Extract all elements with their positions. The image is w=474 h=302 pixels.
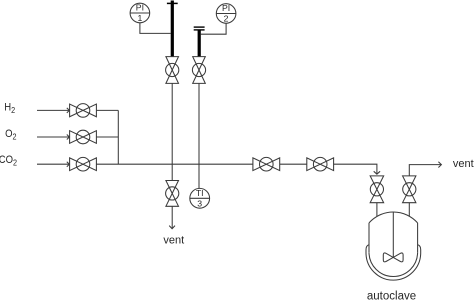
valve autoclave vent	[403, 176, 416, 203]
svg-text:PI: PI	[222, 3, 230, 13]
wire O2 to manifold	[96, 136, 118, 138]
valve autoclave feed	[370, 176, 384, 203]
wire H2 inlet	[37, 109, 69, 111]
valve CO2 line	[70, 157, 97, 171]
autoclave jacket	[366, 245, 421, 280]
svg-text:autoclave: autoclave	[367, 291, 416, 302]
svg-text:3: 3	[197, 198, 202, 208]
wire pipe 2 down to TI	[198, 83, 200, 188]
wire H2 to manifold	[96, 109, 118, 111]
svg-text:vent: vent	[163, 234, 184, 246]
wire PI 1 to capillary	[140, 23, 171, 34]
wire main line segment 1	[96, 163, 253, 165]
wire CO2 inlet	[37, 163, 69, 165]
svg-text:vent: vent	[453, 158, 474, 170]
flow arrow vent right	[438, 162, 441, 168]
stirrer shaft	[392, 212, 394, 257]
wire main line segment 2	[280, 163, 307, 165]
valve vent bottom	[166, 181, 179, 207]
valve O2 line	[70, 130, 97, 144]
valve main line 2	[307, 157, 334, 171]
capillary pipe 2 (thick)	[194, 27, 205, 56]
wire main line segment 3 to autoclave drop	[334, 164, 377, 173]
svg-text:2: 2	[224, 14, 229, 24]
flow arrow vent bottom	[169, 226, 175, 229]
instrument PI 1	[130, 3, 150, 24]
svg-text:O2: O2	[5, 128, 16, 142]
instrument TI 3	[190, 188, 210, 209]
flow arrow H2 line	[67, 108, 70, 113]
svg-text:TI: TI	[196, 188, 204, 198]
flow arrow CO2 line	[67, 162, 70, 167]
valve main line 1	[253, 157, 280, 171]
wire vent riser to arrow	[409, 165, 441, 176]
wire autoclave vent riser	[408, 203, 410, 217]
wire feed valve to autoclave nozzle	[376, 203, 378, 217]
wire O2 inlet	[37, 136, 69, 138]
wire manifold vertical	[117, 110, 119, 164]
valve pipe 1 top	[166, 57, 179, 84]
wire PI 2 to capillary	[201, 23, 226, 34]
valve H2 line	[70, 104, 97, 118]
svg-text:CO2: CO2	[0, 154, 17, 168]
instrument PI 2	[216, 3, 236, 24]
autoclave vessel body	[369, 212, 418, 277]
capillary pipe 1 (thick)	[167, 1, 178, 57]
svg-text:PI: PI	[136, 3, 144, 13]
svg-text:H2: H2	[4, 102, 15, 116]
flow arrow into autoclave	[374, 171, 380, 174]
wire vent down	[171, 206, 173, 228]
stirrer propeller	[383, 253, 403, 262]
svg-text:1: 1	[137, 13, 142, 23]
valve pipe 2 top	[192, 57, 205, 84]
wire pipe 1 down across main line	[171, 83, 173, 180]
flow arrow O2 line	[67, 135, 70, 140]
